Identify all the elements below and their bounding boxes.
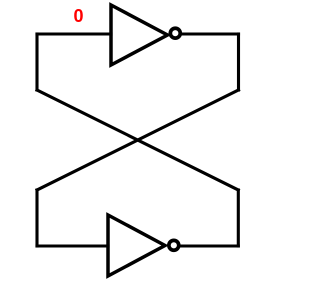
wire left upper vertical [35, 34, 38, 90]
wire diagonal from right upper to left lower [37, 90, 239, 190]
wire bottom output horizontal (U2 output) [181, 244, 238, 247]
wire top input horizontal (node Q to U1 input) [37, 32, 111, 35]
inverter U2 output bubble [169, 240, 179, 250]
wire bottom input horizontal (to U2 input) [37, 244, 108, 247]
wire diagonal from left upper to right lower [37, 90, 238, 190]
wire top output horizontal (U1 output) [181, 32, 239, 35]
wire right lower vertical [237, 190, 240, 246]
wire right upper vertical [237, 34, 240, 90]
svg-text:0: 0 [74, 6, 84, 26]
wire left lower vertical [35, 190, 38, 246]
inverter U1 triangle [111, 5, 168, 65]
inverter U1 output bubble [170, 28, 180, 38]
inverter U2 triangle [108, 215, 165, 276]
